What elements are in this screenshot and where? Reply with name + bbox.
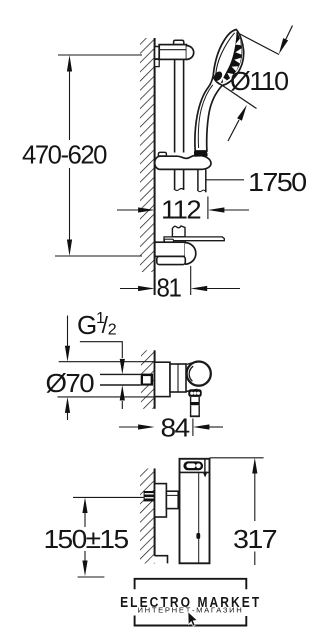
svg-text:2: 2 xyxy=(108,322,117,339)
nozzle ring white teeth xyxy=(235,39,241,46)
O70 arrows xyxy=(67,316,69,349)
horn to knob xyxy=(186,363,198,392)
dimension 470-620 : top extension line xyxy=(58,54,142,56)
wall surface line (mid view) xyxy=(154,350,156,409)
top bracket lower plate xyxy=(155,59,160,66)
handle inner highlight line xyxy=(198,85,212,148)
leader 1750 xyxy=(207,179,245,181)
handle-head neck lines xyxy=(213,77,222,86)
bottom bracket round cap xyxy=(185,243,196,265)
knob left crescent arc xyxy=(189,366,193,381)
top bracket arm xyxy=(159,45,186,60)
mixer valve body xyxy=(170,364,186,392)
cap pill control (dark with holes) xyxy=(183,461,203,470)
top bracket arm highlight line xyxy=(160,49,186,51)
svg-text:470-620: 470-620 xyxy=(22,140,107,170)
O70 top extension line xyxy=(59,361,155,363)
dimension 317 : top extension line xyxy=(210,457,264,459)
supply fitting (dark, in wall) xyxy=(144,491,155,501)
wall foot step xyxy=(155,556,168,564)
handle grip dark band in holder xyxy=(194,151,208,157)
O70 bottom extension line xyxy=(58,396,155,398)
wall surface line (bottom view) xyxy=(154,469,156,556)
top bracket mount plate xyxy=(155,47,160,59)
dimension O110 : lower tangent line xyxy=(217,82,257,109)
svg-text:112: 112 xyxy=(161,195,201,225)
slider holder body xyxy=(155,155,211,169)
dimension 84 : left arrow xyxy=(119,426,139,428)
rail middle segment (below slider, break cut) xyxy=(174,169,176,190)
svg-text:1750: 1750 xyxy=(248,167,307,197)
pipe wall fitting (dark frame) xyxy=(141,374,153,386)
body collar line xyxy=(177,364,179,392)
top bracket knob xyxy=(174,40,184,44)
rail upper segment xyxy=(174,59,176,152)
wall hatch (top view) xyxy=(140,38,155,272)
supply leader line (bottom view) xyxy=(73,496,144,498)
dimension 112 : right arrow xyxy=(208,207,225,212)
escutcheon (mid view) xyxy=(155,362,170,396)
bottom bracket lower lobe xyxy=(157,256,186,264)
bottom bracket lever bump xyxy=(164,239,173,242)
dimension 150+-15 : bottom arrow xyxy=(84,551,86,566)
dimension 112 : left arrow through wall xyxy=(117,209,139,211)
shower column body xyxy=(180,459,210,564)
svg-text:Ø70: Ø70 xyxy=(46,368,95,398)
svg-text:150±15: 150±15 xyxy=(44,524,129,554)
mouse cursor xyxy=(188,612,197,626)
logo box xyxy=(135,579,247,590)
dimension 470-620 : vertical line + arrows xyxy=(69,66,71,140)
wall surface line (top view) xyxy=(154,38,156,295)
wall hatch (bottom view) xyxy=(140,469,155,564)
G1/2 leader L-line xyxy=(80,342,122,358)
wall hatch (mid view) xyxy=(141,350,155,409)
head face inner arc xyxy=(216,33,235,75)
connector block xyxy=(166,491,178,508)
svg-text:ИНТЕРНЕТ-МАГАЗИН: ИНТЕРНЕТ-МАГАЗИН xyxy=(138,608,244,615)
hose (top view) xyxy=(197,169,199,191)
hose neck below nut xyxy=(190,397,192,402)
mixer knob (circle) xyxy=(187,362,211,386)
detail dash on inner line xyxy=(196,533,200,539)
dimension 81 : right extension line xyxy=(190,266,192,295)
svg-text:G: G xyxy=(77,310,97,340)
head center cap (dark oval) xyxy=(212,70,224,83)
dimension 470-620 : bottom extension line xyxy=(55,255,142,257)
supply pipe stub xyxy=(100,373,141,375)
dimension 150+-15 : bottom extension line xyxy=(78,576,105,578)
valve rough-in body (bottom view) xyxy=(155,484,167,517)
dimension 81 : left arrow xyxy=(120,288,139,290)
dimension 84 : right extension line xyxy=(192,419,194,437)
hose tube (mid view) xyxy=(190,405,192,416)
nozzle ring (dark crescent with teeth) xyxy=(221,32,243,84)
inner hidden line xyxy=(198,472,200,563)
svg-text:84: 84 xyxy=(161,413,190,443)
G1/2 lower arrow xyxy=(121,401,123,409)
svg-text:81: 81 xyxy=(157,273,182,303)
hand shower (handle + head silhouette) xyxy=(195,30,244,152)
svg-text:Ø110: Ø110 xyxy=(230,66,289,96)
small arrow under cap xyxy=(203,473,207,478)
dimension O110 : lower arrow xyxy=(228,120,239,141)
soap dish (edge view) xyxy=(164,237,224,241)
dimension 317 : vertical line + top arrow xyxy=(254,469,256,521)
dimension O110 : upper arrow xyxy=(285,26,293,42)
bottom bracket body xyxy=(155,242,186,256)
svg-text:317: 317 xyxy=(233,524,277,554)
column cap bottom line xyxy=(180,471,210,473)
dimension 150+-15 : top arrow xyxy=(84,504,86,527)
dimension O110 : upper tangent line xyxy=(237,33,279,55)
dimension 84 : right arrow xyxy=(193,424,210,429)
slider clamp knob xyxy=(158,152,166,156)
hose ferrule (dark band) xyxy=(190,402,200,405)
dimension 112 : right extension line xyxy=(207,197,209,220)
rail lower stub with wavy cut xyxy=(172,226,185,237)
dimension 81 : right arrow xyxy=(191,286,208,291)
top bracket round cap xyxy=(187,46,194,60)
outlet nut with knurl dots xyxy=(188,389,201,397)
column cap inner right edge xyxy=(204,459,206,473)
